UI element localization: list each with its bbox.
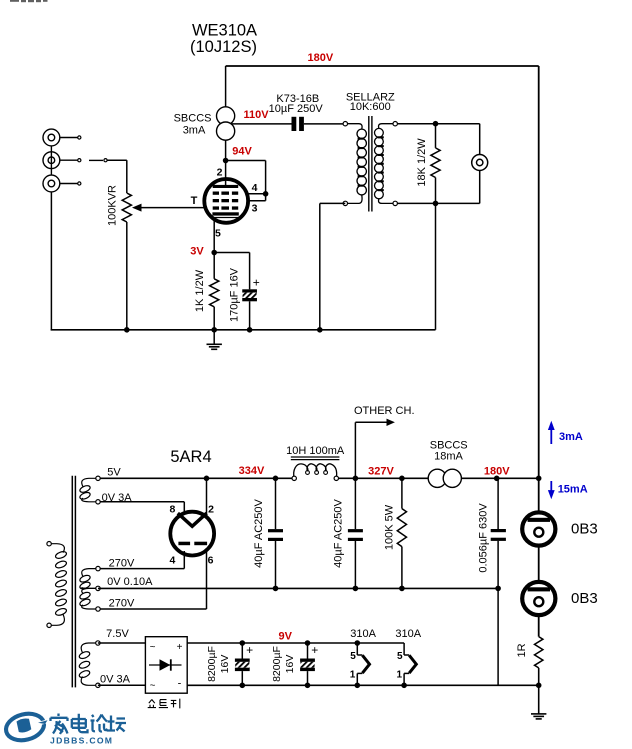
transformer T1 secondary winding [379,124,396,129]
input jack J3 [43,175,60,192]
tube V1 grid rows [213,192,219,195]
junction 40uF bottom [273,586,279,592]
wire pin 6 [206,548,208,609]
wire 0V 0.10A rail [98,587,498,589]
arrow OTHER CH [387,419,395,426]
wire 94V to screen loop [226,160,266,162]
choke core [291,456,340,458]
capacitor 8200uF 16V #2 [305,640,311,646]
svg-text:5: 5 [350,651,356,662]
svg-text:(10J12S): (10J12S) [190,38,257,56]
tube 0B3 #1 [522,512,555,545]
svg-text:2: 2 [208,504,214,516]
bridge rectifier (schottky) [145,637,187,694]
capacitor 8200uF 16V #1 [240,640,246,646]
transformer T1 primary terminals [343,122,347,126]
svg-text:270V: 270V [109,557,135,569]
choke terminals [292,476,296,480]
junction 334V cap [273,476,279,482]
junction bottom rail [536,683,542,689]
svg-text:40µF AC250V: 40µF AC250V [253,498,265,567]
wire right B+ rail (top part) [538,66,540,637]
node 94V [223,158,229,164]
input jack J1 [43,129,60,146]
svg-text:100K 5W: 100K 5W [384,504,396,550]
resistor 1R [535,637,543,668]
svg-text:T: T [191,195,198,207]
ground symbol (input stage) [207,343,222,345]
junction 40uF(2) bottom [353,586,359,592]
wire rail bottom [538,668,540,714]
tube V1 plate lead pin 2 [225,161,227,187]
svg-text:~: ~ [150,681,156,692]
wire pot bottom to ground bus [126,222,128,330]
junction 327V tap [353,476,359,482]
tube V2 5AR4 envelope [170,512,214,556]
svg-text:10K:600: 10K:600 [350,101,391,113]
wire secondary top [397,123,479,125]
wire to output jack [479,124,481,155]
tube 0B3 #2 [522,582,555,615]
junction pin 4 [263,191,269,197]
tube V1 WE310A envelope [204,179,248,223]
tube V1 plate [213,185,239,188]
svg-text:1: 1 [350,669,356,680]
junction 0.056 cap top [494,476,500,482]
junction 0.056 mid [495,586,501,592]
junction transformer return [317,327,323,333]
svg-text:270V: 270V [109,598,135,610]
capacitor K73-16B 10uF 250V [292,117,297,131]
tube V1 cathode [212,212,238,215]
wire jack shells common [50,146,52,175]
svg-text:10H 100mA: 10H 100mA [286,445,345,457]
capacitor 40uF AC250V (first) [275,478,277,529]
svg-text:5AR4: 5AR4 [170,448,211,466]
resistor 100K 5W [401,478,403,508]
svg-text:18K 1/2W: 18K 1/2W [416,138,428,187]
label schottky (korean) [148,699,180,709]
current source SBCCS 3mA [217,107,235,125]
wire pin 3 [236,200,266,202]
svg-text:310A: 310A [395,628,421,640]
svg-text:0B3: 0B3 [571,521,598,538]
svg-text:1: 1 [397,669,403,680]
wire 110V node [231,123,292,125]
svg-text:~: ~ [150,642,156,653]
junction secondary bottom [433,201,439,207]
pot wiper arrow [132,204,142,212]
svg-text:+: + [311,643,318,657]
junction rail/180V [536,476,542,482]
transformer T1 primary winding [345,124,362,129]
wire bridge - output [187,684,539,686]
svg-text:SBCCS: SBCCS [430,439,468,451]
wire 7.5V to bridge [98,642,145,644]
wire 180V top rail [226,65,539,67]
svg-text:8: 8 [169,504,175,516]
junction 100K bottom [399,586,405,592]
svg-text:334V: 334V [239,465,265,477]
input jack J2 [43,152,60,169]
svg-text:+: + [177,642,183,653]
svg-text:5: 5 [397,651,403,662]
svg-text:1R: 1R [516,643,528,657]
junction 100K top [399,476,405,482]
junction pin2 [204,476,210,482]
wire SBCCS top lead [225,66,227,108]
transformer T1 SELLARZ core [368,116,370,212]
svg-text:3mA: 3mA [183,125,206,137]
heater 310A #2 [403,643,405,655]
wire OTHER CH tap [354,422,356,478]
T2 5V winding [82,478,98,486]
wire J2 to selector contact [60,159,78,161]
svg-text:0B3: 0B3 [571,590,598,607]
svg-text:3: 3 [252,203,258,215]
svg-text:9V: 9V [278,630,292,642]
svg-text:OTHER CH.: OTHER CH. [354,405,415,417]
capacitor 40uF AC250V (second) [354,478,356,529]
wire pin 4 [183,551,185,569]
svg-text:+: + [246,643,253,657]
svg-text:110V: 110V [243,109,269,121]
capacitor 0.056uF 630V [497,478,499,529]
svg-text:SBCCS: SBCCS [174,112,212,124]
T2 HV winding [82,569,98,577]
svg-text:0V 3A: 0V 3A [102,492,133,504]
svg-text:180V: 180V [308,52,334,64]
tube V2 anode plates V [178,513,207,526]
svg-text:0V 0.10A: 0V 0.10A [107,576,153,588]
potentiometer 100KVR [122,193,131,222]
logo chinese characters [51,714,127,735]
wire 18K bottom to ground bus [435,203,437,329]
wire 3V to bypass cap [214,252,249,254]
svg-text:4: 4 [169,555,175,567]
svg-text:JDBBS.COM: JDBBS.COM [50,735,113,745]
svg-text:-: - [178,678,182,690]
junction bypass cap [247,327,253,333]
svg-text:0.056µF 630V: 0.056µF 630V [478,503,490,573]
svg-text:16V: 16V [284,655,296,674]
junction heater1 top [355,640,361,646]
T2 7.5V winding [81,643,98,653]
ground stub [213,330,215,345]
svg-text:8200µF: 8200µF [206,646,218,682]
wire 0V to bridge [98,684,145,686]
svg-text:7.5V: 7.5V [106,628,129,640]
svg-text:170µF 16V: 170µF 16V [229,267,241,322]
svg-text:3V: 3V [190,246,204,258]
current source SBCCS 18mA [428,469,446,487]
svg-text:10µF 250V: 10µF 250V [269,103,324,115]
junction secondary top [433,121,439,127]
ground symbol (main) [531,713,546,715]
wire bridge + output [187,642,404,644]
svg-text:18mA: 18mA [434,451,463,463]
junction pot/ground bus [124,327,130,333]
wire cap to transformer [304,123,343,125]
svg-text:327V: 327V [368,465,394,477]
selector switch S1 contacts [78,136,81,139]
svg-text:16V: 16V [219,655,231,674]
wire 334V rail [98,477,292,479]
junction cathode R [211,327,217,333]
arrow 3mA (blue) [550,428,552,444]
wire wiper to grid T [141,207,213,209]
svg-text:3mA: 3mA [559,431,583,443]
svg-text:WE310A: WE310A [192,22,257,40]
choke L1 10H 100mA [294,464,308,478]
transformer T2 core [71,476,73,688]
resistor 18K 1/2W [435,124,437,148]
wire J3 shell down to ground bus [50,192,52,330]
selector switch S1 wiper arm [89,159,103,161]
T2 primary winding [49,544,64,553]
svg-text:2: 2 [217,166,223,178]
svg-text:5V: 5V [107,466,121,478]
svg-text:0V 3A: 0V 3A [100,673,131,685]
wire pin 4 [236,193,266,195]
svg-text:6: 6 [208,555,214,567]
svg-text:310A: 310A [350,628,376,640]
svg-text:4: 4 [252,182,258,194]
resistor 1K 1/2W [213,253,215,279]
svg-text:1K 1/2W: 1K 1/2W [194,269,206,312]
capacitor 170uF 16V [242,289,257,292]
svg-text:8200µF: 8200µF [271,646,283,682]
output jack J4 [472,155,488,171]
svg-text:100KVR: 100KVR [107,185,119,226]
logo mark (swirl ellipse) [3,710,47,744]
arrow 15mA (blue) [550,481,552,492]
wire 327V/180V rail [336,477,538,479]
tube V2 filament [178,542,190,546]
wire pin 8 [98,501,184,503]
svg-text:15mA: 15mA [558,484,588,496]
wire SBCCS bottom lead to 94V node [225,140,227,160]
wire ground bus (input stage) [51,329,436,331]
svg-text:40µF AC250V: 40µF AC250V [332,498,344,567]
heater 310A #1 [356,643,358,655]
cropped watermark remnant top-left [10,0,48,2]
svg-text:5: 5 [215,227,221,239]
wire J3 to selector contact [60,183,78,185]
svg-text:+: + [253,276,260,290]
wire switch to volume pot [108,159,127,161]
svg-text:94V: 94V [232,146,252,158]
transformer T1 secondary terminals [393,122,397,126]
wire pin 2 [206,478,208,519]
wire cathode pin 5 [213,218,215,252]
wire secondary bottom [397,202,479,204]
wire T1 primary bottom return [320,202,346,204]
wire J1 to selector contact [60,137,78,139]
T2 primary terminals [47,542,51,546]
